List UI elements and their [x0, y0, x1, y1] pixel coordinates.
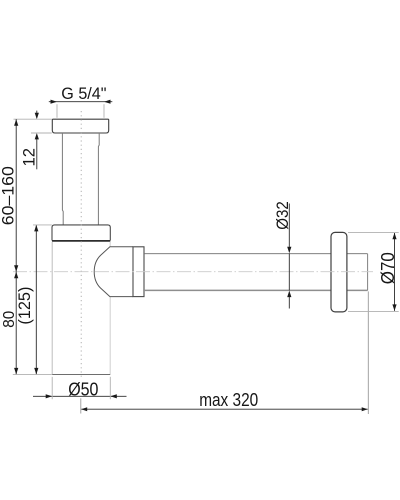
svg-text:60–160: 60–160 [0, 166, 18, 225]
vertical centerline [80, 111, 82, 379]
svg-text:(125): (125) [16, 287, 34, 325]
compression nut [52, 225, 110, 241]
svg-text:max 320: max 320 [199, 389, 258, 410]
horizontal wall pipe [144, 254, 368, 291]
top flange (basin connection) [52, 119, 108, 133]
trap body cup [52, 242, 110, 375]
svg-text:Ø32: Ø32 [273, 201, 292, 230]
vertical tailpipe (telescopic) [62, 133, 99, 225]
pipe end cap [367, 254, 369, 291]
dimension diameter 32 (wall pipe) [288, 204, 290, 309]
dimension max 320 (reach to wall) [81, 408, 368, 410]
svg-text:Ø50: Ø50 [68, 378, 98, 399]
ring nut on horizontal outlet [133, 247, 144, 297]
svg-text:Ø70: Ø70 [377, 252, 398, 284]
dimension diameter 50 (cup) [33, 395, 127, 397]
dimension diameter 70 (rosette) [394, 233, 396, 311]
horizontal centerline [13, 271, 373, 273]
nut shoulder thick line [52, 240, 110, 242]
svg-text:G 5/4": G 5/4" [61, 84, 106, 103]
svg-text:12: 12 [20, 148, 39, 167]
dimension (125) (nut to bottom) [35, 225, 37, 375]
dimension 80 (axis to bottom) [15, 272, 17, 375]
elbow bulge (outlet olive) [94, 247, 133, 297]
dimension 12 (flange height) [36, 111, 38, 170]
dimension 60-160 (adjustable height) [15, 119, 17, 272]
wall rosette flange [331, 232, 347, 312]
dimension G 5/4" [49, 101, 113, 103]
